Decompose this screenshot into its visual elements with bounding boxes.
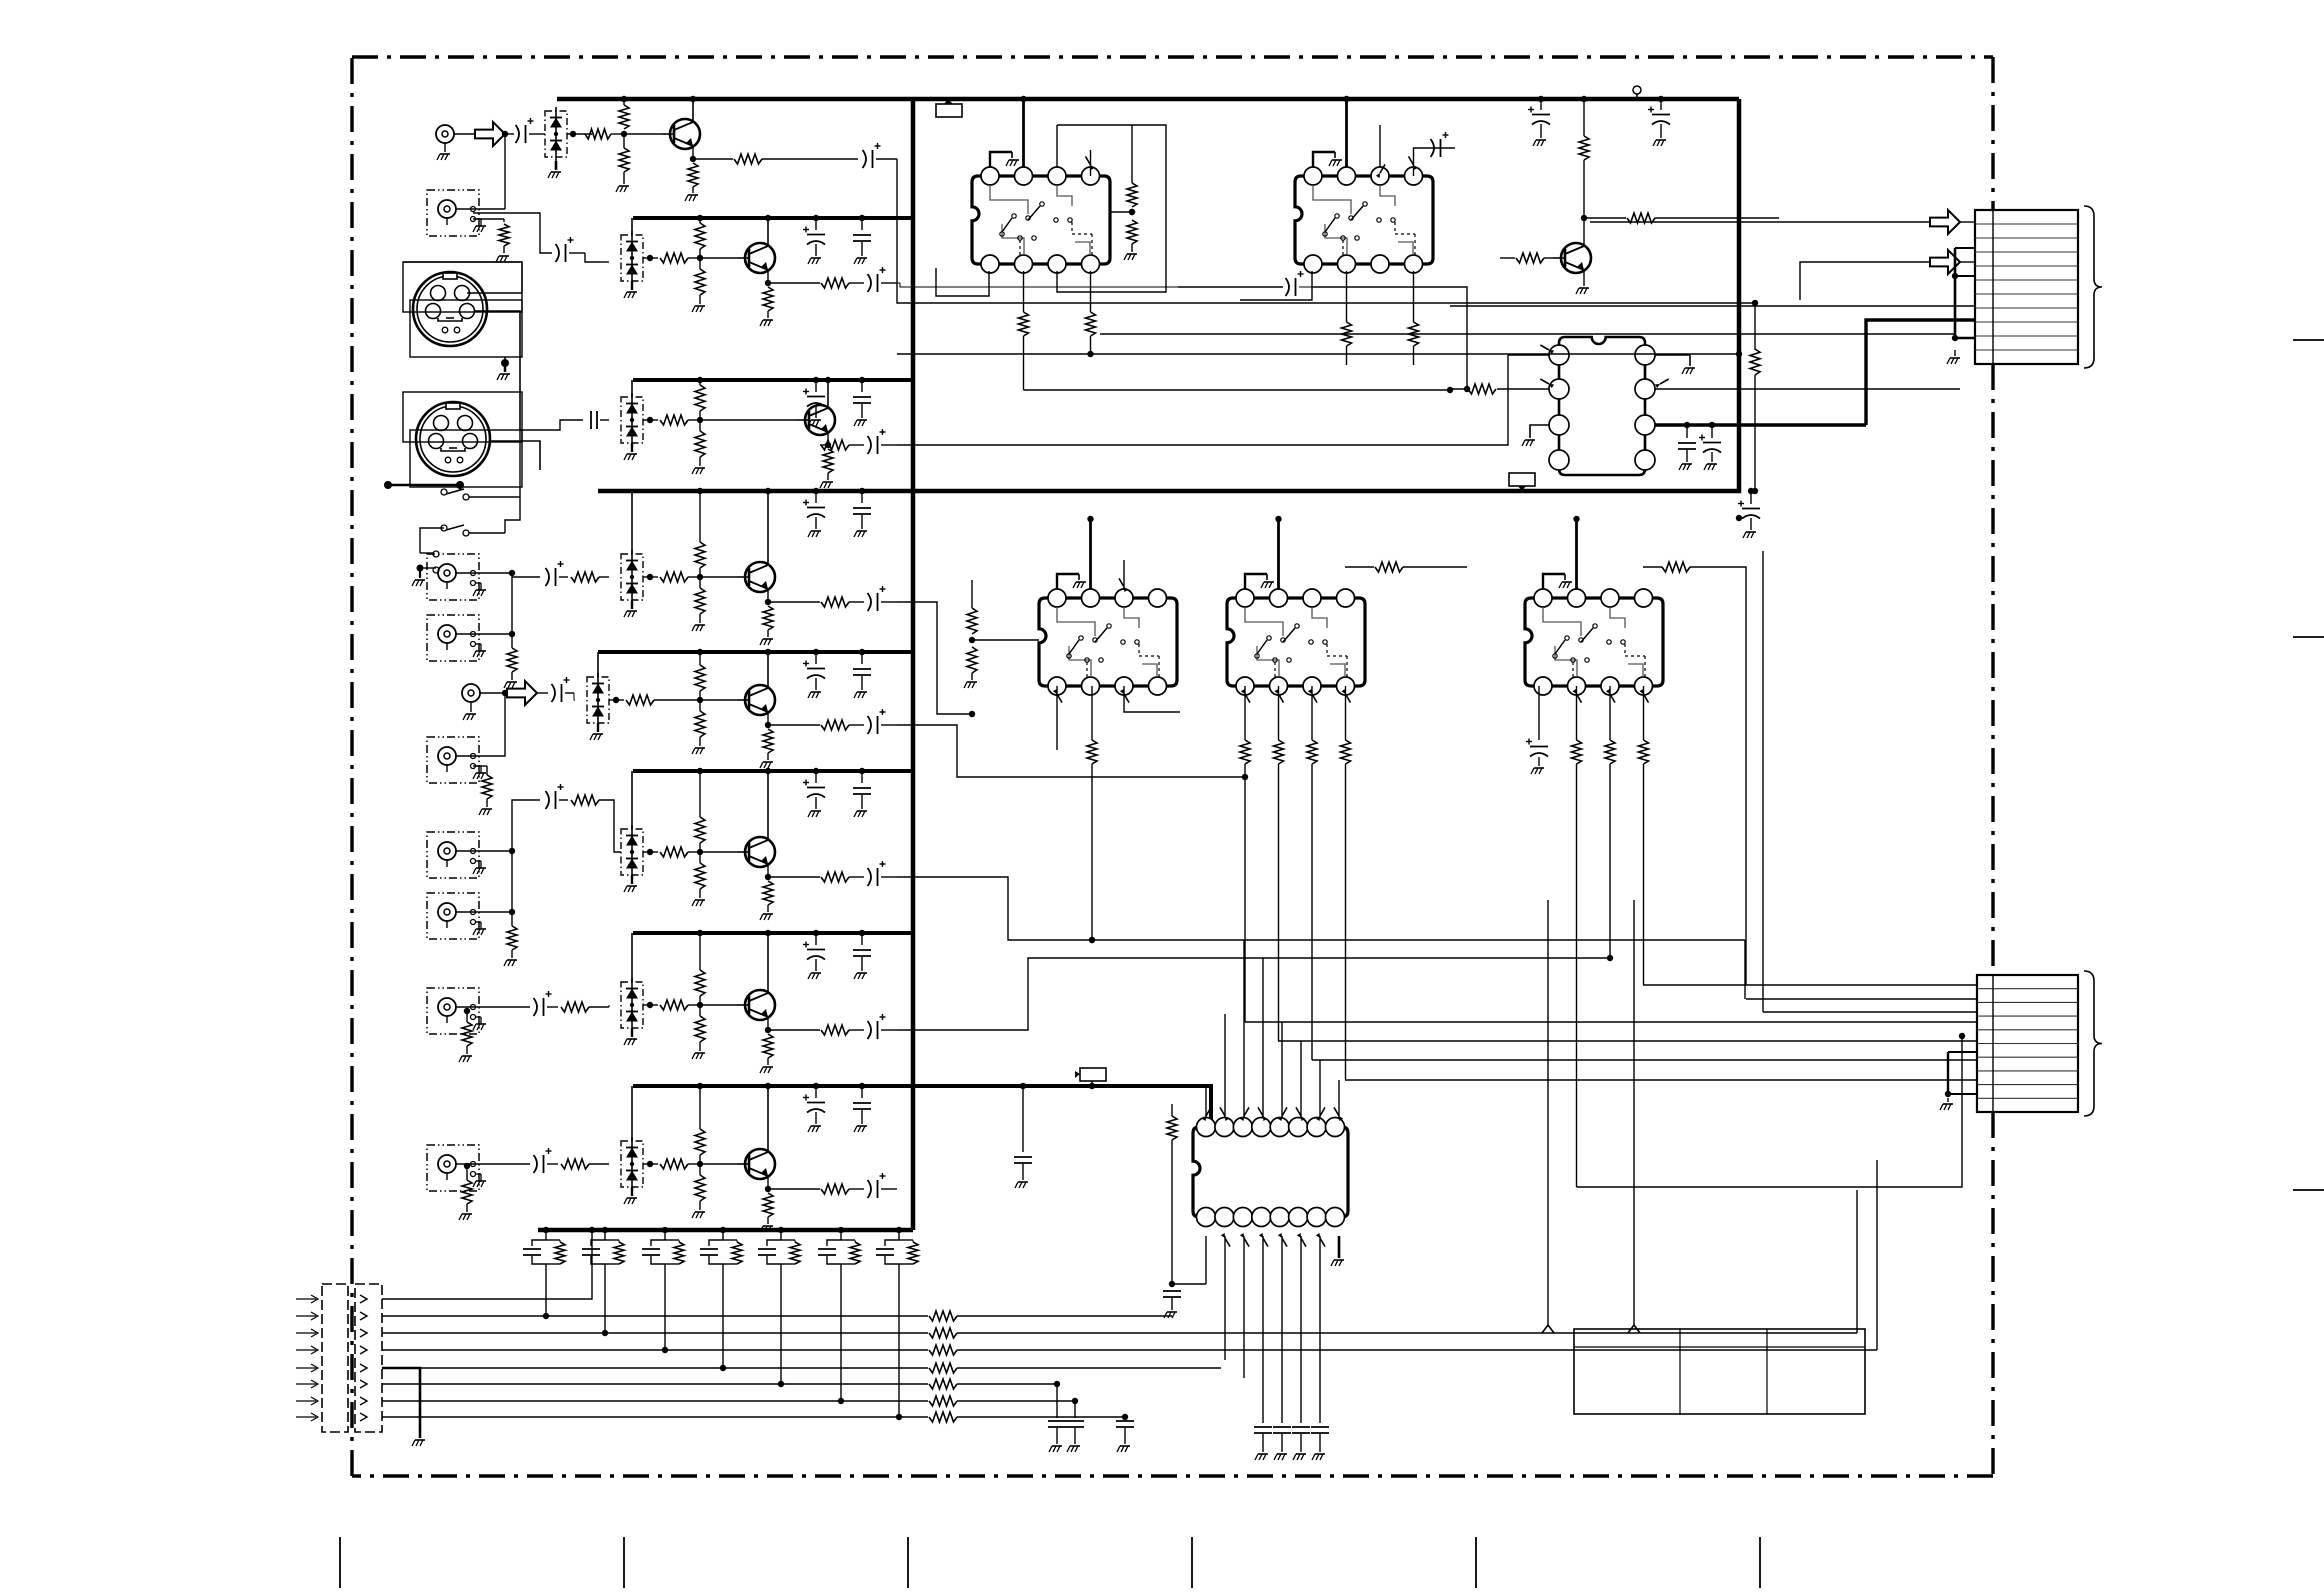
DIN2 ground bus bbox=[388, 484, 460, 487]
wire run y390 bbox=[1024, 389, 1451, 391]
U6 bottom cap bbox=[1538, 686, 1540, 740]
bias resistor R72 bbox=[695, 970, 705, 996]
harness wire row 6 bbox=[382, 1383, 928, 1385]
U7 left resistor bbox=[1171, 1104, 1173, 1116]
board connector CN1 bbox=[1975, 210, 2078, 364]
output resistor R55 bbox=[768, 724, 820, 726]
bias resistor R63 bbox=[695, 863, 705, 889]
collector wire bbox=[767, 491, 769, 565]
wire to base bbox=[700, 576, 737, 578]
J9 pulldown resistor bbox=[511, 912, 513, 926]
wire to base bbox=[700, 257, 737, 259]
RCA jack box J10 bbox=[427, 988, 479, 1034]
U2 pin4 input cap bbox=[1414, 148, 1456, 176]
transistor Q3 bbox=[805, 405, 835, 435]
RCA jack box J2 bbox=[427, 190, 479, 236]
RC pair 7 on standby bus bbox=[887, 1229, 899, 1231]
thick wire to connector bbox=[1866, 320, 1975, 425]
decoupling cap C43 bbox=[861, 491, 863, 503]
decoupling cap C32 (electrolytic) bbox=[815, 380, 817, 392]
wire to base bbox=[700, 1163, 737, 1165]
node after diode block bbox=[647, 574, 653, 580]
U6 pin2 supply bbox=[1575, 519, 1578, 589]
U1 pin4 arrowed wire bbox=[1090, 150, 1092, 176]
CN1 wire arrow2 bbox=[1800, 262, 1930, 300]
wire row2 output run bbox=[897, 283, 1178, 287]
resistor R51 bbox=[626, 695, 654, 705]
resistor R61 bbox=[660, 847, 688, 857]
U3 pin2 resistor bbox=[1468, 384, 1496, 394]
U4 bottom resistor bbox=[1091, 686, 1093, 740]
row3 input path bbox=[520, 420, 583, 430]
J2 pulldown resistor R7 bbox=[473, 218, 504, 220]
row1 output cap C2 bbox=[762, 158, 858, 160]
bus cap C32 bbox=[1736, 515, 1742, 521]
jumper W1 bbox=[936, 104, 962, 117]
RC pair 3 on standby bus bbox=[653, 1229, 665, 1231]
bus cap C31 bbox=[1660, 99, 1662, 110]
bias resistor R42 bbox=[695, 542, 705, 568]
bias resistor R32 bbox=[695, 385, 705, 411]
analog switch IC U6 bbox=[1525, 598, 1663, 686]
signal arrow row5 bbox=[507, 681, 537, 705]
CN3 pin arrows bbox=[296, 1298, 316, 1300]
CN3 ground wire bbox=[382, 1368, 420, 1438]
bus row2 (thick) bbox=[633, 216, 913, 220]
bias resistor R73 bbox=[695, 1016, 705, 1042]
row1 output resistor R6 bbox=[693, 158, 733, 160]
U3 pin5 gnd bbox=[1655, 355, 1690, 366]
J11 pulldown resistor bbox=[466, 1166, 468, 1180]
analog switch IC U1 bbox=[972, 176, 1110, 264]
output resistor R75 bbox=[768, 1029, 820, 1031]
bias resistor R52 bbox=[695, 665, 705, 691]
harness wire row 4 bbox=[382, 1349, 928, 1351]
RCA jack box J7 bbox=[427, 737, 479, 783]
op-amp IC U3 bbox=[1559, 337, 1645, 475]
harness risers bbox=[1856, 1190, 1858, 1333]
CN1 gnd stub bbox=[1954, 350, 1956, 356]
DIN1 pin wires bbox=[475, 311, 520, 430]
collector wire bbox=[827, 380, 829, 408]
RCA jack box J11 bbox=[427, 1145, 479, 1191]
Q9 base resistor bbox=[1500, 257, 1515, 259]
junction node row1 input bbox=[502, 131, 508, 137]
resistor R41 bbox=[660, 572, 688, 582]
diode block top wire bbox=[631, 1086, 633, 1141]
diode clamp block D1 bbox=[545, 111, 567, 157]
wire row5 output run bbox=[897, 725, 1245, 777]
emitter resistor R84 bbox=[767, 1176, 769, 1192]
U1 pin2 supply bbox=[1022, 99, 1025, 167]
output coupling cap C24 bbox=[849, 282, 864, 284]
CN1 wire arrow1 bbox=[1590, 221, 1930, 223]
J7 wire up bbox=[473, 693, 505, 756]
row5 coupling cap bbox=[537, 692, 548, 694]
row2 input path bbox=[473, 213, 552, 253]
emitter resistor R34 bbox=[827, 432, 829, 448]
decoupling cap C72 (electrolytic) bbox=[815, 933, 817, 945]
U7 area jumper W3 bbox=[1080, 1068, 1106, 1081]
transistor Q4 bbox=[745, 562, 775, 592]
transistor Q6 bbox=[745, 837, 775, 867]
harness wire row 2 bbox=[382, 1315, 928, 1317]
decoupling cap C73 bbox=[861, 933, 863, 945]
U1 bottom pin1 wire bbox=[936, 268, 989, 296]
decoupling cap C83 bbox=[861, 1086, 863, 1098]
bus row3 (thick) bbox=[633, 378, 913, 382]
RC pair 4 on standby bus bbox=[711, 1229, 723, 1231]
diode clamp block D2a bbox=[621, 235, 643, 281]
wire y985 run bbox=[1643, 984, 1746, 986]
switch column wire bbox=[505, 430, 520, 533]
transistor Q2 bbox=[745, 243, 775, 273]
RCA jack box J4 bbox=[427, 554, 479, 600]
wire row1 output run bbox=[897, 159, 1755, 303]
output resistor R45 bbox=[768, 601, 820, 603]
analog switch IC U2 bbox=[1295, 176, 1433, 264]
Q9 output resistor bbox=[1584, 217, 1626, 219]
decoupling cap C63 bbox=[861, 771, 863, 783]
jumper W2 bbox=[1509, 473, 1535, 486]
U3 pin2 wire bbox=[1497, 388, 1549, 390]
CN2 border crossing bbox=[1992, 975, 1994, 1112]
wire connector CN3 (dual header) bbox=[322, 1284, 348, 1432]
U1 gnd bracket bbox=[990, 152, 1012, 167]
U3 pin1 wire bbox=[1508, 354, 1549, 356]
revision table bbox=[1574, 1329, 1865, 1414]
decoupling cap C22 (electrolytic) bbox=[815, 218, 817, 230]
resistor above U6 right bbox=[1643, 566, 1662, 568]
diode clamp block D6a bbox=[621, 829, 643, 875]
node after diode block bbox=[647, 255, 653, 261]
diode block top wire bbox=[597, 652, 599, 677]
U5 pin2 supply bbox=[1277, 519, 1280, 589]
bias resistor R33 bbox=[695, 431, 705, 457]
U6 gnd bracket bbox=[1543, 574, 1565, 589]
bus row8 (thick) bbox=[633, 1086, 1211, 1122]
Q9 collector resistor bbox=[1583, 228, 1585, 246]
output coupling cap C34 bbox=[849, 444, 864, 446]
bottom bus (thick) bbox=[538, 1228, 913, 1233]
bias resistor R3 (upper) bbox=[619, 105, 629, 129]
S-video connector DIN1 bbox=[413, 272, 487, 346]
row7 coupling cap bbox=[473, 1006, 530, 1008]
bias resistor R43 bbox=[695, 588, 705, 614]
resistor R21 bbox=[660, 253, 688, 263]
U3 pin3 gnd bbox=[1530, 425, 1549, 438]
harness cap A bbox=[1056, 1384, 1058, 1418]
CN2 vertical link bbox=[1947, 1052, 1949, 1094]
bias resistor R62 bbox=[695, 817, 705, 843]
node after diode block bbox=[647, 417, 653, 423]
bias resistor R23 bbox=[695, 269, 705, 295]
bus cap C30 bbox=[1540, 99, 1542, 110]
wire to base bbox=[700, 851, 737, 853]
row6 coupling cap bbox=[512, 800, 540, 851]
U1 bottom pin resistors bbox=[1023, 271, 1025, 312]
collector wire bbox=[767, 218, 769, 246]
Q1 emitter resistor R5 bbox=[692, 146, 694, 162]
diode clamp block D8a bbox=[621, 1141, 643, 1187]
wire cap between U1 U2 bbox=[1178, 286, 1283, 288]
wire J2 to row1 node bbox=[473, 208, 505, 210]
U2 pin2 supply bbox=[1345, 99, 1348, 167]
RCA jack box J5 bbox=[427, 615, 479, 661]
bus cap C33 bbox=[1022, 1086, 1024, 1152]
J10 node bbox=[464, 1008, 470, 1014]
test point on top bus bbox=[1633, 86, 1641, 94]
U6 bottom resistors bbox=[1576, 686, 1578, 740]
transistor Q9 bbox=[1561, 243, 1591, 273]
J7 pulldown resistor bbox=[473, 765, 487, 767]
node after diode block bbox=[613, 697, 619, 703]
wire to base bbox=[700, 1004, 737, 1006]
resistor R31 bbox=[660, 415, 688, 425]
vertical wire x1745 bbox=[1745, 567, 1747, 985]
U2 pin3 wire bbox=[1379, 125, 1381, 167]
switch SW1 bbox=[441, 489, 447, 495]
output resistor R65 bbox=[768, 876, 820, 878]
decoupling cap C42 (electrolytic) bbox=[815, 491, 817, 503]
U7 bottom pin wires bbox=[1205, 1236, 1207, 1284]
U2 bottom pin1 wire bbox=[1240, 271, 1312, 300]
bus row5 (thick) bbox=[598, 650, 913, 654]
CN1 wire4 bbox=[1100, 333, 1955, 335]
harness wire row 5 bbox=[382, 1367, 928, 1369]
collector wire bbox=[767, 771, 769, 840]
decoupling cap C53 bbox=[861, 652, 863, 664]
harness wire row 1 bbox=[382, 1230, 592, 1299]
wire D1 to R2 bbox=[567, 133, 592, 135]
output coupling cap C54 bbox=[849, 724, 864, 726]
wire to Q1 base bbox=[624, 133, 662, 135]
row8 coupling cap bbox=[473, 1163, 530, 1165]
U5 gnd bracket bbox=[1245, 574, 1267, 589]
diode clamp block D5a bbox=[587, 677, 609, 723]
CN2 input wires bbox=[1643, 984, 1977, 986]
harness wire row 8 bbox=[382, 1416, 928, 1418]
output coupling cap C44 bbox=[849, 601, 864, 603]
signal arrow row1 bbox=[475, 122, 505, 146]
Q9 emitter bbox=[1583, 270, 1585, 286]
U7 top pin wires bbox=[1205, 1086, 1207, 1118]
output coupling cap C64 bbox=[849, 876, 864, 878]
bus row7 (thick) bbox=[633, 931, 913, 935]
output resistor R35 bbox=[820, 444, 828, 446]
output resistor R25 bbox=[768, 282, 820, 284]
RCA jack box J9 bbox=[427, 893, 479, 939]
row6 input node bbox=[509, 848, 515, 854]
output coupling cap C84 bbox=[849, 1188, 864, 1190]
coupling capacitor C1 (electrolytic) bbox=[505, 133, 514, 135]
node after diode block bbox=[647, 1161, 653, 1167]
emitter resistor R24 bbox=[767, 270, 769, 286]
bias resistor R83 bbox=[695, 1175, 705, 1201]
J11 node bbox=[464, 1163, 470, 1169]
transistor Q1 bbox=[670, 119, 700, 149]
RC pair 5 on standby bus bbox=[769, 1229, 781, 1231]
registration tick marks bottom edge bbox=[339, 1537, 341, 1588]
U1 bottom pin3 wire bbox=[1057, 125, 1166, 292]
CN1 border crossing bbox=[1992, 210, 1994, 364]
emitter resistor R64 bbox=[767, 864, 769, 880]
DIN1 ground bbox=[504, 357, 506, 362]
diode clamp block D7a bbox=[621, 982, 643, 1028]
RC pair 2 on standby bus bbox=[593, 1229, 605, 1231]
output coupling cap C74 bbox=[849, 1029, 864, 1031]
diode block top wire bbox=[631, 218, 633, 235]
CN2 return wire bbox=[1577, 1036, 1963, 1187]
U4 left resistors bbox=[972, 639, 1039, 641]
U3 supply caps bbox=[1686, 425, 1688, 438]
collector wire bbox=[767, 933, 769, 993]
wire to base bbox=[700, 699, 737, 701]
decoupling cap C82 (electrolytic) bbox=[815, 1086, 817, 1098]
harness cap C bbox=[1124, 1417, 1126, 1418]
collector wire bbox=[767, 652, 769, 688]
resistor right bbox=[1752, 300, 1758, 306]
RC pair 1 on standby bus bbox=[534, 1229, 546, 1231]
collector wire bbox=[767, 1086, 769, 1152]
decoupling cap C23 bbox=[861, 218, 863, 230]
CN1 wire3 bbox=[1450, 305, 1975, 307]
emitter resistor R54 bbox=[767, 712, 769, 728]
DIN2 right wires bbox=[490, 441, 540, 470]
resistor above U5-U6 bbox=[1345, 566, 1374, 568]
board connector CN2 bbox=[1977, 975, 2078, 1112]
power bus top (thick) bbox=[557, 97, 1739, 102]
RCA jack J6 bbox=[462, 684, 480, 702]
bias resistor R53 bbox=[695, 711, 705, 737]
wire row6 output run bbox=[897, 877, 1745, 940]
switch SW3 bbox=[433, 551, 439, 557]
registration tick marks right edge bbox=[2293, 339, 2324, 341]
bias resistor R22 bbox=[695, 223, 705, 249]
page border frame (dash-dot) bbox=[352, 55, 1993, 58]
U7 bottom caps bbox=[1254, 1426, 1272, 1428]
switch SW2 bbox=[441, 525, 447, 531]
transistor Q5 bbox=[745, 685, 775, 715]
CN1 vertical link bbox=[1954, 248, 1957, 338]
RC pair 6 on standby bus bbox=[829, 1229, 841, 1231]
diode block top wire bbox=[631, 380, 633, 397]
emitter resistor R44 bbox=[767, 589, 769, 605]
bias resistor R4 (lower) bbox=[619, 148, 629, 172]
vertical bus (thick) bbox=[911, 99, 916, 1230]
decoupling cap C33 bbox=[861, 380, 863, 392]
S-video connector DIN2 bbox=[416, 402, 490, 476]
node after diode block bbox=[647, 849, 653, 855]
U5 bottom resistors bbox=[1244, 686, 1246, 740]
logic IC U7 bbox=[1193, 1127, 1348, 1217]
diode clamp block D4a bbox=[621, 554, 643, 600]
wire row3 output run bbox=[897, 355, 1508, 445]
U3 pin6 wire bbox=[1655, 388, 1960, 390]
chevron wire B bbox=[1633, 900, 1635, 1325]
power bus mid (thick) bbox=[598, 99, 1739, 491]
wire to base bbox=[700, 419, 797, 421]
diode clamp block D3a bbox=[621, 397, 643, 443]
transistor Q8 bbox=[745, 1149, 775, 1179]
decoupling cap C62 (electrolytic) bbox=[815, 771, 817, 783]
diode block top wire bbox=[631, 491, 633, 554]
resistor R71 bbox=[660, 1000, 688, 1010]
transistor Q7 bbox=[745, 990, 775, 1020]
U4 gnd bracket bbox=[1057, 574, 1079, 589]
diode block top wire bbox=[631, 771, 633, 829]
output resistor R85 bbox=[768, 1188, 820, 1190]
wire row4 output run bbox=[897, 602, 972, 714]
bus row6 (thick) bbox=[633, 769, 913, 773]
RCA jack box J8 bbox=[427, 832, 479, 878]
chevron wire A bbox=[1547, 900, 1549, 1325]
RCA jack J1 bbox=[436, 125, 454, 143]
U3 pin7 supply (thick) bbox=[1655, 423, 1866, 426]
emitter resistor R74 bbox=[767, 1017, 769, 1033]
node after diode block bbox=[647, 1002, 653, 1008]
U1 right resistors bbox=[1110, 211, 1132, 213]
U2 gnd bracket bbox=[1313, 152, 1335, 167]
harness cap B bbox=[1074, 1401, 1076, 1418]
J5 pulldown resistor bbox=[511, 634, 513, 648]
resistor R2 bbox=[585, 129, 611, 139]
U4 pin3 arrow bbox=[1123, 560, 1125, 589]
J10 pulldown resistor bbox=[466, 1011, 468, 1022]
Q1 collector wire bbox=[692, 99, 694, 122]
harness wire row 3 bbox=[382, 1332, 928, 1334]
vertical wire x1763 bbox=[1762, 551, 1764, 1012]
analog switch IC U4 bbox=[1039, 598, 1177, 686]
diode block top wire bbox=[631, 933, 633, 982]
row4 coupling cap bbox=[512, 576, 540, 578]
U1 pin3 wire bbox=[1056, 125, 1058, 167]
wire U1 bottom run bbox=[897, 353, 1739, 355]
decoupling cap C52 (electrolytic) bbox=[815, 652, 817, 664]
row4 input node bbox=[509, 570, 515, 576]
wire row7 output run bbox=[897, 958, 1610, 1030]
bias resistor R82 bbox=[695, 1129, 705, 1155]
U4 pin2 supply bbox=[1089, 519, 1092, 589]
harness wire row 7 bbox=[382, 1400, 928, 1402]
resistor R81 bbox=[660, 1159, 688, 1169]
analog switch IC U5 bbox=[1227, 598, 1365, 686]
U4 bottom pin wires bbox=[1056, 686, 1058, 750]
U2 bottom resistors bbox=[1346, 271, 1348, 322]
